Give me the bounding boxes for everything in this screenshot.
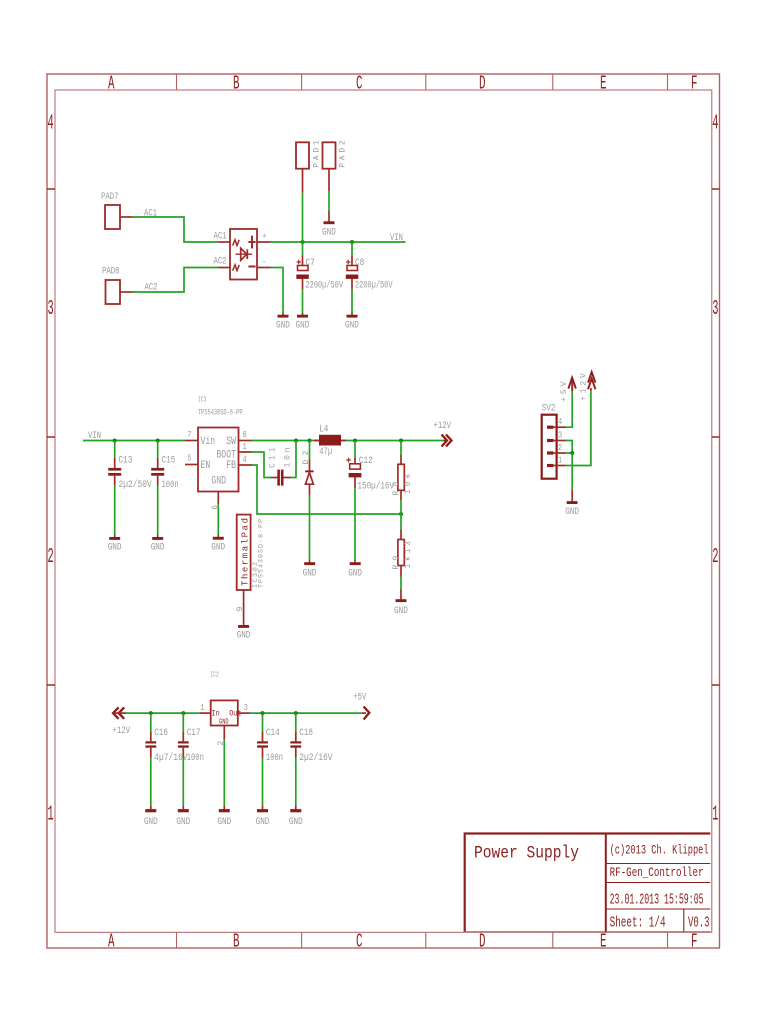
ground IC2: [219, 809, 230, 812]
svg-text:B: B: [233, 73, 240, 95]
svg-text:100n: 100n: [266, 752, 283, 764]
pin SV2 1: [553, 465, 566, 467]
wire PAD1 to VIN: [302, 193, 304, 242]
wire VIN top: [271, 241, 406, 243]
ground SV2: [567, 501, 578, 504]
svg-text:D: D: [479, 73, 486, 95]
wire BOOT to C11: [252, 452, 271, 478]
wire VIN middle: [83, 440, 185, 442]
connector SV2 pad 1: [547, 464, 553, 467]
pin IC3 GND: [217, 492, 219, 505]
svg-text:A: A: [108, 73, 115, 95]
inductor L4: [314, 440, 319, 442]
junction C12: [353, 439, 357, 443]
pad PAD1: [296, 142, 309, 168]
capacitor C12: [354, 458, 356, 464]
svg-text:-: -: [262, 257, 266, 268]
gnd stub PAD2: [328, 211, 330, 222]
ground C14: [257, 809, 268, 812]
junction C16: [149, 711, 153, 715]
wire AC1: [133, 217, 219, 242]
ic IC3 body: [198, 428, 239, 492]
ground PAD2: [324, 221, 335, 224]
svg-text:2: 2: [48, 546, 54, 569]
wire IC3 gnd: [217, 504, 219, 535]
svg-text:C16: C16: [154, 727, 168, 739]
svg-text:C15: C15: [162, 455, 176, 467]
supply +12V arrow left: [113, 707, 124, 718]
resistor R8: [400, 441, 402, 456]
wire SV2 pin2: [566, 452, 572, 454]
ground IC3: [213, 537, 224, 540]
wire C18 to gnd: [295, 758, 297, 806]
svg-text:+5V: +5V: [353, 692, 367, 704]
gnd stub IC2: [223, 806, 225, 809]
svg-text:4: 4: [558, 417, 562, 427]
svg-text:IC2: IC2: [210, 672, 218, 680]
resistor R9: [400, 514, 402, 530]
svg-text:2: 2: [712, 546, 718, 569]
wire C13 to gnd: [114, 486, 116, 535]
gnd stub IC3: [217, 535, 219, 537]
svg-text:23.01.2013 15:59:05: 23.01.2013 15:59:05: [610, 893, 704, 909]
capacitor C15: [157, 458, 159, 468]
svg-text:GND: GND: [211, 541, 225, 553]
svg-text:Vin: Vin: [201, 436, 216, 448]
junction divider: [399, 512, 403, 516]
ground C18: [290, 809, 301, 812]
svg-text:AC1: AC1: [144, 207, 157, 219]
wire AC2: [133, 268, 219, 293]
svg-text:5: 5: [187, 454, 191, 464]
svg-text:GND: GND: [565, 506, 579, 518]
capacitor C7: [302, 256, 304, 266]
supply +12V arrow: [443, 440, 447, 442]
svg-text:1: 1: [558, 455, 562, 465]
svg-text:9: 9: [236, 607, 245, 612]
supply +12V arrow up: [590, 388, 592, 391]
svg-text:C14: C14: [266, 727, 280, 739]
svg-text:GND: GND: [345, 319, 359, 331]
wire PAD2 to gnd: [328, 191, 330, 211]
svg-text:10n: 10n: [283, 447, 292, 467]
svg-text:GND: GND: [211, 475, 226, 487]
svg-text:SW: SW: [226, 436, 236, 448]
wire SV2 gnd down: [571, 453, 573, 490]
svg-text:3: 3: [244, 703, 248, 713]
pin SV2 3: [553, 440, 566, 442]
svg-text:PAD2: PAD2: [338, 140, 347, 168]
pad PAD7: [105, 205, 120, 229]
wire +12V to IC2: [126, 712, 200, 714]
svg-text:3: 3: [712, 298, 718, 321]
bridge rectifier B1 body: [230, 229, 257, 280]
svg-text:4: 4: [243, 455, 247, 465]
title block: [465, 834, 711, 932]
svg-text:(c)2013 Ch. Klippel: (c)2013 Ch. Klippel: [610, 842, 709, 857]
junction C18: [294, 711, 298, 715]
gnd stub C18: [295, 806, 297, 809]
thermal pad IC3 body: [237, 515, 251, 590]
svg-text:VIN: VIN: [88, 430, 101, 442]
svg-text:10k: 10k: [404, 473, 413, 494]
wire C15 lead top: [157, 441, 159, 458]
pin SV2 2: [553, 452, 566, 454]
svg-text:2: 2: [558, 443, 562, 453]
svg-text:Out: Out: [229, 709, 241, 718]
svg-text:GND: GND: [322, 227, 336, 239]
wire bridge minus to gnd: [271, 268, 284, 314]
svg-text:PAD7: PAD7: [101, 191, 119, 203]
gnd stub C12: [354, 561, 356, 563]
junction C8: [350, 240, 354, 244]
capacitor C17: [182, 731, 184, 741]
svg-text:150µ/16V: 150µ/16V: [357, 480, 394, 492]
svg-text:+: +: [262, 231, 267, 242]
junction C13: [113, 439, 117, 443]
ic IC2 body: [211, 700, 238, 725]
svg-text:PAD8: PAD8: [102, 266, 120, 278]
svg-text:1: 1: [200, 703, 204, 713]
svg-text:C18: C18: [299, 727, 313, 739]
wire SV2 pin4 to +5V: [566, 391, 572, 427]
svg-text:TPS5430SD-8-PP: TPS5430SD-8-PP: [258, 519, 265, 588]
svg-text:D: D: [479, 931, 486, 953]
svg-text:V0.3: V0.3: [688, 915, 710, 931]
pin IC2 In: [200, 712, 211, 714]
bridge minus symbol: [248, 266, 255, 268]
connector SV2 pad 2: [547, 451, 553, 454]
wire C16 to gnd: [150, 758, 152, 806]
svg-text:VIN: VIN: [390, 232, 403, 244]
capacitor C11: [271, 477, 277, 479]
svg-text:GND: GND: [217, 816, 231, 828]
junction C11 top: [294, 439, 298, 443]
pin IC3 BOOT: [239, 451, 253, 453]
svg-text:E: E: [600, 73, 607, 95]
gnd stub C15: [157, 535, 159, 537]
junction R8: [399, 439, 403, 443]
ground C16: [145, 809, 156, 812]
svg-text:47µ: 47µ: [319, 446, 332, 458]
ground thermal pad: [238, 625, 249, 628]
ground C12: [350, 562, 361, 565]
supply +5V arrow up: [571, 380, 573, 391]
wire C12 to gnd: [354, 488, 356, 561]
svg-text:1: 1: [243, 442, 247, 452]
svg-text:SV2: SV2: [542, 403, 556, 415]
svg-text:L4: L4: [319, 424, 328, 436]
wire C18 lead top: [295, 713, 297, 731]
svg-text:PAD1: PAD1: [313, 140, 322, 168]
svg-text:3: 3: [558, 430, 562, 440]
capacitor C13: [114, 458, 116, 468]
capacitor C18: [295, 731, 297, 741]
svg-text:100n: 100n: [187, 752, 204, 764]
wire D2 top: [309, 441, 311, 460]
wire FB to divider: [252, 465, 401, 514]
svg-text:3: 3: [48, 298, 54, 321]
pin PAD7: [120, 216, 133, 218]
wire C14 lead top: [262, 713, 264, 731]
wire C15 to gnd: [157, 486, 159, 535]
svg-text:+12V: +12V: [580, 373, 589, 401]
svg-text:GND: GND: [219, 718, 229, 726]
junction C17: [181, 711, 185, 715]
svg-text:2µ2/50V: 2µ2/50V: [119, 479, 153, 491]
ground C13: [109, 537, 120, 540]
bridge AC2 pin: [218, 267, 230, 269]
wire D2 to gnd: [309, 495, 311, 561]
ground C7: [297, 315, 308, 318]
svg-text:GND: GND: [276, 319, 290, 331]
gnd stub C13: [114, 535, 116, 537]
wire SV2 pin3 down: [566, 441, 572, 454]
svg-text:C13: C13: [119, 455, 133, 467]
gnd stub C7: [302, 313, 304, 315]
svg-text:2µ2/16V: 2µ2/16V: [299, 752, 333, 764]
svg-text:AC2: AC2: [214, 256, 227, 268]
pin PAD2: [328, 169, 330, 191]
svg-text:1: 1: [712, 804, 718, 827]
ground C8: [347, 315, 358, 318]
gnd stub C17: [182, 806, 184, 809]
svg-text:GND: GND: [296, 319, 310, 331]
ground R9: [396, 599, 407, 602]
bridge AC1 pin: [218, 241, 230, 243]
svg-text:F: F: [691, 73, 698, 95]
svg-text:A: A: [108, 931, 115, 953]
svg-text:+12V: +12V: [113, 725, 131, 737]
svg-text:GND: GND: [256, 816, 270, 828]
gnd stub R9: [400, 590, 402, 600]
wire IC2 out to +5V: [250, 712, 362, 714]
wire C17 lead top: [182, 713, 184, 731]
wire C11 to SW: [291, 441, 296, 478]
svg-text:C12: C12: [359, 455, 373, 467]
pin thermal pad: [243, 590, 245, 625]
svg-text:1k13: 1k13: [404, 541, 413, 569]
pin IC2 Out: [238, 712, 250, 714]
gnd stub C14: [262, 806, 264, 809]
pin PAD1: [302, 169, 304, 193]
svg-text:RF-Gen_Controller: RF-Gen_Controller: [610, 865, 704, 880]
svg-text:IC3: IC3: [198, 397, 206, 405]
pin SV2 4: [553, 426, 566, 428]
gnd stub bridge minus: [282, 313, 284, 315]
pin PAD8: [120, 291, 133, 293]
ground bridge minus: [278, 315, 289, 318]
gnd stub C16: [150, 806, 152, 809]
svg-text:C11: C11: [269, 447, 278, 468]
svg-text:+12V: +12V: [434, 420, 452, 432]
svg-text:AC1: AC1: [214, 231, 227, 243]
bridge ac symbol top: [233, 240, 240, 246]
svg-text:GND: GND: [394, 605, 408, 617]
svg-text:Sheet: 1/4: Sheet: 1/4: [610, 915, 666, 931]
capacitor C8: [351, 256, 353, 266]
supply +5V arrow right: [362, 712, 366, 714]
svg-text:GND: GND: [303, 568, 317, 580]
gnd stub D2: [309, 561, 311, 563]
svg-text:GND: GND: [237, 630, 251, 642]
frame border: [47, 74, 720, 948]
wire C16 lead top: [150, 713, 152, 731]
connector SV2 pad 3: [547, 439, 553, 442]
svg-text:4: 4: [48, 113, 54, 136]
connector SV2 pad 4: [547, 426, 553, 429]
junction C15: [156, 439, 160, 443]
svg-text:1: 1: [48, 804, 54, 827]
svg-text:GND: GND: [289, 816, 303, 828]
bridge plus pin: [257, 241, 271, 243]
wire SW to +12V: [252, 440, 443, 442]
wire IC2 gnd: [223, 739, 225, 806]
wire C7 lead top: [302, 242, 304, 256]
capacitor C14: [262, 731, 264, 741]
wire C13 lead top: [114, 441, 116, 458]
pin IC3 FB: [239, 464, 253, 466]
svg-text:C17: C17: [187, 727, 201, 739]
bridge ac symbol bottom: [233, 265, 240, 271]
diode D2: [309, 460, 311, 471]
svg-text:C7: C7: [306, 257, 315, 269]
wire R9 to gnd: [400, 577, 402, 590]
svg-text:GND: GND: [348, 568, 362, 580]
svg-text:ThermalPad: ThermalPad: [240, 518, 250, 586]
wire C14 to gnd: [262, 758, 264, 806]
wire C8 to gnd: [351, 289, 353, 313]
bridge plus symbol: [251, 236, 253, 249]
svg-text:E: E: [600, 931, 607, 953]
svg-text:B: B: [233, 931, 240, 953]
wire C7 to gnd: [302, 289, 304, 313]
ground C17: [178, 809, 189, 812]
svg-text:Power Supply: Power Supply: [474, 843, 579, 863]
svg-text:GND: GND: [151, 542, 165, 554]
gnd stub SV2: [571, 490, 573, 502]
svg-text:C: C: [356, 73, 363, 95]
svg-text:7: 7: [187, 430, 191, 440]
svg-text:8: 8: [243, 430, 247, 440]
pin IC3 EN: [185, 464, 198, 466]
svg-text:GND: GND: [108, 542, 122, 554]
svg-text:+5V: +5V: [560, 381, 569, 402]
bridge minus pin: [257, 267, 271, 269]
svg-text:AC2: AC2: [145, 282, 158, 294]
wire SV2 pin1 to +12V: [566, 391, 591, 465]
wire C8 lead top: [351, 242, 353, 256]
svg-text:2200µ/50V: 2200µ/50V: [355, 280, 393, 292]
ground D2: [304, 562, 315, 565]
svg-text:4: 4: [712, 113, 718, 136]
capacitor C16: [150, 731, 152, 741]
pin IC3 SW: [239, 440, 253, 442]
junction D2: [308, 439, 312, 443]
svg-text:GND: GND: [176, 816, 190, 828]
svg-text:GND: GND: [144, 816, 158, 828]
svg-text:2200µ/50V: 2200µ/50V: [306, 280, 344, 292]
wire C12 top: [354, 441, 356, 458]
svg-text:F: F: [691, 931, 698, 953]
wire C17 to gnd: [182, 758, 184, 806]
svg-text:FB: FB: [226, 460, 236, 472]
pad PAD2: [323, 142, 336, 168]
pin IC2 GND: [223, 726, 225, 740]
junction C14: [261, 711, 265, 715]
junction C7: [301, 240, 305, 244]
connector SV2 body: [542, 415, 557, 479]
bridge diode: [236, 253, 252, 255]
svg-text:In: In: [212, 709, 220, 718]
pad PAD8: [106, 280, 121, 304]
junction SV2 gnd: [570, 451, 574, 455]
svg-text:C: C: [356, 931, 363, 953]
svg-text:100n: 100n: [162, 479, 179, 491]
svg-text:EN: EN: [201, 460, 211, 472]
svg-text:C8: C8: [355, 257, 364, 269]
pin IC3 Vin: [185, 440, 198, 442]
ground C15: [152, 537, 163, 540]
svg-text:TPS5430SD-8-PP: TPS5430SD-8-PP: [198, 409, 243, 418]
gnd stub C8: [351, 313, 353, 315]
